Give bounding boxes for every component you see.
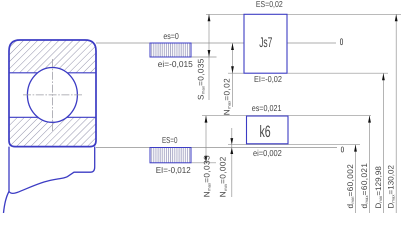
shaft outline — [9, 147, 95, 194]
zero line D — [96, 42, 336, 44]
Nmin dimension line — [231, 128, 233, 197]
Nmax(0,033) dimension line — [205, 116, 207, 163]
outer ring inner edge — [9, 72, 96, 74]
ei level line (k6 bottom) — [228, 144, 360, 146]
ei line of ring OD — [191, 56, 217, 58]
dmin arrow — [354, 145, 357, 152]
Nmax(0,02) dimension line — [232, 43, 234, 107]
svg-text:Dmin=129,98: Dmin=129,98 — [374, 166, 383, 209]
Dmax arrow — [395, 14, 398, 21]
Nmax(0,02) arrows — [231, 43, 234, 50]
centerline horizontal — [23, 94, 82, 96]
EI line of bore — [191, 162, 216, 164]
zero mark lower — [341, 147, 343, 152]
svg-text:es=0,021: es=0,021 — [252, 103, 282, 113]
Dmax dimension line — [395, 14, 397, 213]
zero line d — [96, 147, 337, 149]
EI level line (Js7 bottom) — [228, 72, 388, 74]
svg-text:Dmax=130,02: Dmax=130,02 — [387, 164, 396, 208]
ball — [27, 68, 77, 123]
arrowheads — [205, 14, 398, 163]
Dmin arrow — [382, 73, 385, 80]
dmin dimension line — [355, 145, 357, 213]
svg-text:es=0: es=0 — [163, 31, 179, 41]
es level line (k6 top) — [202, 115, 371, 117]
ES level line (Js7 top) — [206, 13, 401, 15]
Js7 box — [244, 14, 287, 73]
svg-text:Nmax=0,033: Nmax=0,033 — [203, 155, 212, 197]
Nmax(0,033) arrows — [205, 116, 208, 123]
inner ring top edge — [9, 116, 96, 118]
outer ring hatched band — [9, 40, 96, 73]
dmax dimension line — [369, 116, 371, 213]
Dmin dimension line — [382, 73, 384, 213]
svg-text:EI=-0,012: EI=-0,012 — [156, 165, 191, 175]
svg-text:dmax=60,021: dmax=60,021 — [360, 163, 369, 209]
bore tolerance zone (hatched) — [150, 148, 191, 163]
svg-text:ei=0,002: ei=0,002 — [253, 148, 282, 158]
inner ring hatched band — [9, 117, 96, 146]
k6 box — [247, 116, 289, 144]
svg-text:EI=-0,02: EI=-0,02 — [254, 74, 282, 84]
svg-text:Smax=0,035: Smax=0,035 — [197, 58, 206, 100]
svg-text:ei=-0,015: ei=-0,015 — [158, 59, 193, 69]
zero mark upper — [340, 39, 342, 45]
svg-text:dmin=60,002: dmin=60,002 — [346, 164, 355, 209]
Nmin arrows (outside) — [230, 138, 233, 145]
svg-text:k6: k6 — [260, 123, 271, 141]
ring OD tolerance zone (hatched) — [150, 43, 191, 57]
vertical dimension labels — [197, 58, 396, 208]
shaft break line tail — [4, 192, 10, 214]
svg-text:Nmax=0,02: Nmax=0,02 — [223, 78, 232, 115]
svg-text:Nmin=0,002: Nmin=0,002 — [219, 156, 228, 197]
dmax arrow — [368, 116, 371, 123]
svg-text:Js7: Js7 — [259, 34, 272, 50]
svg-text:ES=0,02: ES=0,02 — [256, 0, 283, 9]
svg-text:ES=0: ES=0 — [162, 135, 178, 145]
Smax arrows — [208, 14, 211, 21]
bearing outline — [9, 40, 96, 147]
centerline vertical — [51, 59, 53, 132]
Smax dimension line — [208, 14, 210, 100]
